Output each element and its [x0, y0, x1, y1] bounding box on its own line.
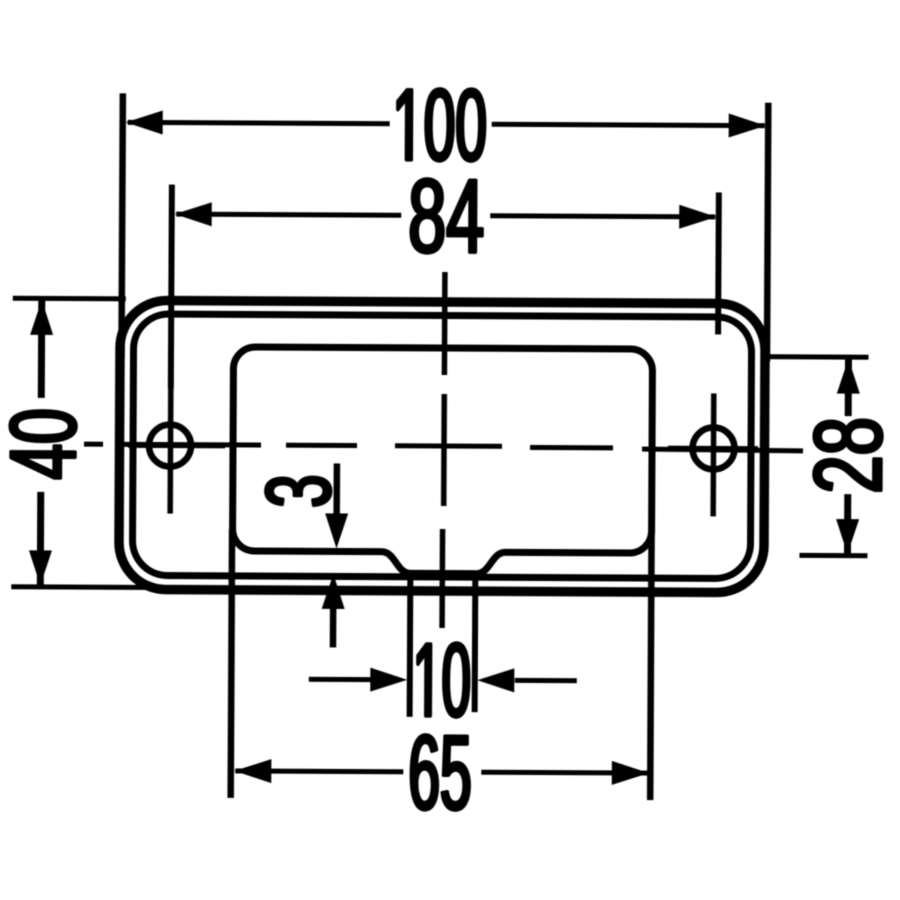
dimension 40: dimension line	[40, 301, 41, 585]
dimension 84: extension lines	[171, 185, 719, 392]
dimension 65: left arrowhead	[234, 759, 271, 783]
dimension 40: label	[10, 411, 76, 478]
dimension 100: label	[398, 89, 485, 161]
dimension 84: right arrowhead	[679, 205, 716, 229]
dimension 28: bottom arrowhead	[836, 519, 859, 554]
outer housing outline	[119, 300, 766, 592]
dimension 65: extension lines	[231, 529, 652, 800]
dimension 40: extension lines	[11, 298, 181, 587]
horizontal centerline	[84, 444, 803, 451]
mounting hole left vertical centerline	[167, 385, 173, 514]
dimension 84: left arrowhead	[175, 202, 212, 226]
dimension 100: extension lines	[121, 93, 768, 361]
dimension 28: dimension line	[847, 359, 848, 554]
dimension 40: top arrowhead	[30, 300, 53, 335]
dimension 40: bottom arrowhead	[29, 550, 52, 585]
dimension 28: top arrowhead	[837, 359, 860, 394]
dimension 10: left dimension line with arrow	[309, 677, 371, 682]
housing inner edge	[132, 314, 751, 579]
dimension 3: label	[266, 477, 331, 505]
dimension 28: extension lines	[767, 357, 868, 556]
dimension 3: lower arrow pointing up	[330, 599, 337, 647]
dimension 65: label	[411, 735, 469, 810]
vertical centerline	[442, 272, 445, 628]
mounting hole right	[692, 427, 734, 469]
dimension 28: label	[814, 420, 882, 490]
dimension 84: dimension line	[176, 214, 715, 217]
dimension 10: label	[418, 643, 469, 717]
dimension 65: dimension line	[235, 771, 648, 773]
dimension 100: right arrowhead	[729, 113, 766, 137]
dimension 10: extension lines	[410, 576, 476, 717]
dimension 100: dimension line	[128, 122, 765, 125]
mounting hole left horizontal centerline	[128, 442, 225, 449]
mounting hole left	[149, 424, 191, 466]
mounting hole right horizontal centerline	[668, 446, 758, 452]
dimension 100: left arrowhead	[126, 110, 163, 134]
dimension 3: upper arrow pointing down	[333, 463, 340, 519]
dimension 65: right arrowhead	[612, 761, 649, 785]
dimension 10: right dimension line with arrow	[515, 678, 577, 683]
dimension 84: label	[411, 179, 482, 253]
mounting hole right vertical centerline	[710, 393, 716, 516]
lens opening with bottom notch	[232, 347, 652, 575]
